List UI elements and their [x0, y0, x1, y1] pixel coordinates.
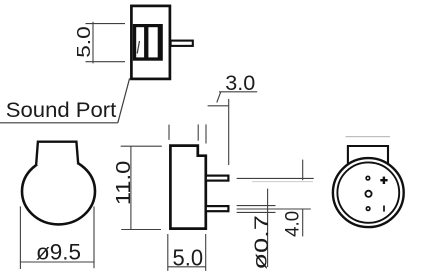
svg-text:4.0: 4.0	[283, 211, 304, 237]
plus polarity mark	[380, 177, 387, 184]
pin 1 (upper lead)	[206, 176, 229, 181]
bottom view top tab	[348, 146, 388, 164]
svg-text:5.0: 5.0	[173, 244, 204, 270]
pin 1 centerline extension	[237, 177, 314, 179]
dimension 11.0 extension line top	[121, 145, 162, 147]
minus polarity mark	[383, 206, 385, 212]
svg-text:5.0: 5.0	[74, 26, 94, 58]
pin 2 bottom edge extension	[237, 211, 276, 213]
front view body circle	[22, 158, 95, 224]
extension stub above body left corner	[168, 125, 170, 140]
bottom view outer circle	[333, 158, 404, 227]
dimension 5.0 dimension line	[92, 22, 94, 64]
dimension 3.0 leader kink	[217, 92, 221, 103]
sound port slot 1 (white)	[136, 27, 144, 57]
bottom view inner circle	[337, 162, 399, 222]
Sound Port leader line	[118, 78, 130, 123]
dimension 5.0 dimension line	[168, 266, 206, 268]
dimension 11.0 extension line bottom	[121, 229, 161, 231]
Sound Port label underline	[0, 122, 118, 124]
dimension 4.0 dimension line lower segment	[302, 209, 304, 237]
dimension 5.0 (sound port height) extension line top	[86, 23, 126, 25]
svg-text:Sound Port: Sound Port	[6, 98, 117, 122]
dimension 3.0 extension line (pin tip vertical)	[228, 99, 230, 165]
svg-text:11.0: 11.0	[113, 161, 135, 206]
pin 2 centerline extension	[237, 208, 311, 210]
dimension 5.0 (body width) extension line left	[167, 234, 169, 271]
buzzer side-view body outline	[170, 146, 205, 229]
ghost artifact line below pin 1 extension	[252, 181, 313, 183]
faint ghost line above tab	[346, 136, 391, 138]
sound port slot 2 (white)	[148, 27, 157, 57]
dimension 5.0 extension line bottom	[86, 61, 126, 63]
dimension 9.5 extension line right	[93, 206, 95, 268]
extension stub above body right edge	[205, 124, 207, 143]
dimension 4.0 dimension line upper segment	[302, 160, 304, 181]
top pin hole	[366, 176, 370, 180]
extension stub above body step corner	[197, 124, 199, 140]
dimension 9.5 dimension line	[20, 261, 94, 263]
dimension 0.7 dimension line (vertical)	[267, 189, 269, 267]
svg-text:ø9.5: ø9.5	[36, 239, 81, 264]
pin 2 (lower lead)	[206, 206, 229, 211]
pin 2 top edge extension	[237, 205, 276, 207]
sound port frame (black)	[133, 24, 163, 61]
svg-text:ø0.7: ø0.7	[250, 215, 273, 270]
dimension 3.0 dimension line	[208, 105, 229, 107]
dimension 11.0 dimension line	[130, 146, 132, 229]
Sound Port leader line tip inside slot	[137, 41, 139, 54]
dimension 3.0 label underline	[219, 91, 257, 93]
front view top tab	[36, 142, 78, 166]
dimension 9.5 extension line left	[19, 206, 21, 269]
dimension 5.0 extension line right	[205, 234, 207, 271]
center hole	[365, 191, 371, 197]
top-view lead tab	[171, 41, 193, 46]
bottom pin hole	[366, 207, 370, 211]
buzzer top-view body outline	[131, 6, 170, 79]
